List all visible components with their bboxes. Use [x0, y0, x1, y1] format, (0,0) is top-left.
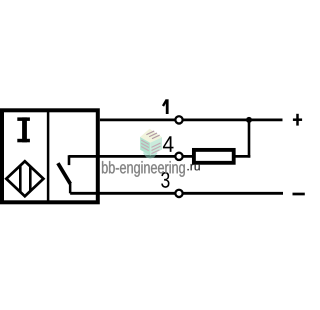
load resistor RL: [194, 150, 234, 163]
switch pivot vertical segment: [69, 183, 72, 193]
pin number label 3: [161, 172, 169, 188]
terminal circle pin 1: [175, 116, 182, 123]
inductive symbol I: [17, 117, 30, 142]
wire pin4 (output): [69, 155, 194, 158]
sensor body box: [2, 110, 98, 202]
watermark logo cube right face: [150, 137, 162, 155]
watermark logo left face document lines: [142, 140, 149, 150]
watermark text bb-engineering.ru: [102, 161, 185, 177]
proximity sensor diamond symbol: [6, 161, 43, 196]
wire pin4 to load resistor right segment: [235, 155, 250, 158]
terminal circle pin 4: [175, 153, 182, 160]
switch fixed contact tick: [68, 155, 71, 165]
divider between sensor symbol section and output section: [47, 110, 50, 202]
watermark logo cube shadow tip: [143, 149, 158, 159]
junction node dot on pin1 wire: [246, 117, 252, 123]
wire pin1 (+ supply): [100, 119, 283, 122]
pin number label 1: [163, 99, 167, 114]
watermark logo top face document lines: [147, 131, 159, 138]
wire load resistor to node on pin1: [248, 120, 251, 158]
pin number label 4: [163, 136, 174, 152]
terminal circle pin 3: [175, 190, 182, 197]
watermark logo right face document lines: [152, 143, 160, 153]
wire pin3 (- supply): [70, 192, 283, 195]
diamond inner vertical chords: [20, 160, 30, 198]
switch lever Q (normally open contact): [58, 163, 70, 184]
watermark logo cube left face: [140, 137, 150, 156]
watermark logo cube top face: [140, 129, 162, 143]
plus polarity symbol: [293, 114, 302, 126]
minus polarity symbol: [293, 193, 305, 196]
